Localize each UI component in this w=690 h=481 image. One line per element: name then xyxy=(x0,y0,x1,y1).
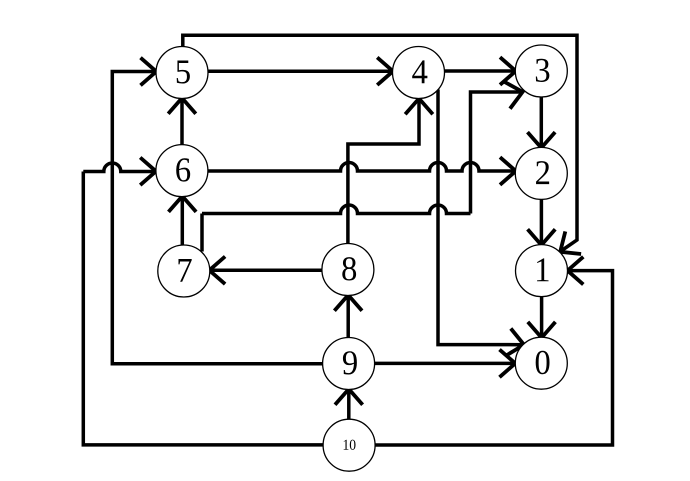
node 4 xyxy=(393,47,445,99)
edge 4->0 xyxy=(438,90,524,356)
edge 9->0 xyxy=(375,350,516,378)
node 8 xyxy=(322,244,374,296)
edge 8->4 xyxy=(348,99,433,244)
node 0 xyxy=(515,337,567,389)
edge 5->1 xyxy=(183,35,581,254)
edge 6->5 xyxy=(168,98,196,145)
edge 7->3 xyxy=(202,82,523,252)
node 9 xyxy=(323,338,375,390)
node 1 xyxy=(516,245,568,297)
edge 9->8 xyxy=(334,295,362,338)
node 6 xyxy=(156,145,208,197)
node 7 xyxy=(158,245,210,297)
node 5 xyxy=(156,47,208,99)
node 10 xyxy=(323,419,375,471)
edge 1->0 xyxy=(528,297,556,338)
edge 10->6 xyxy=(83,158,323,445)
edge 3->2 xyxy=(528,97,556,148)
node 2 xyxy=(515,147,567,199)
edge 6->2 xyxy=(208,157,516,185)
node 3 xyxy=(515,45,567,97)
edge 9->5 xyxy=(112,58,322,364)
edge 5->4 xyxy=(208,57,393,85)
edge 2->1 xyxy=(528,199,556,245)
edge 7->6 xyxy=(169,196,197,245)
edge 8->7 xyxy=(209,257,322,285)
edge 10->1 xyxy=(375,257,612,445)
edge 10->9 xyxy=(335,389,363,419)
edge 4->3 xyxy=(445,57,516,85)
